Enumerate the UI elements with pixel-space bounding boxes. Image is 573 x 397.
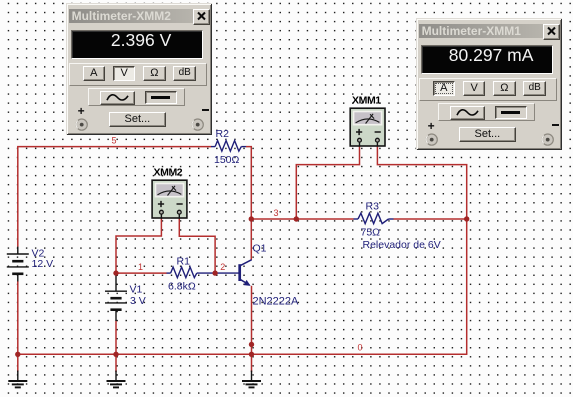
svg-text:2N2222A: 2N2222A (253, 295, 300, 307)
junction R3 right (464, 216, 469, 221)
wire V2 bottom (17, 281, 19, 354)
ground G3 (242, 371, 261, 388)
wire R2 to node3 (246, 147, 251, 219)
junction node3 at R2 (249, 216, 254, 221)
svg-text:R3: R3 (366, 201, 380, 213)
svg-text:1: 1 (138, 262, 143, 272)
resistor R3 (354, 213, 394, 223)
svg-text:5: 5 (112, 136, 117, 146)
wire net5 left vertical (17, 147, 19, 247)
wire node1 to R1 (116, 272, 167, 274)
multimeter icon XMM2 (152, 180, 187, 219)
svg-text:XMM2: XMM2 (154, 167, 183, 179)
svg-text:150Ω: 150Ω (214, 154, 240, 166)
wire ground stem V1 (115, 354, 117, 372)
svg-text:12 V: 12 V (32, 258, 54, 270)
ground G1 (8, 371, 27, 388)
resistor R2 (211, 141, 246, 152)
wire ground bus bottom (18, 353, 468, 355)
wire V1 bottom (115, 321, 117, 355)
wire XMM2 plus lead (116, 218, 161, 273)
wire XMM1 minus lead right rail (377, 146, 466, 355)
junction bottom left (15, 352, 20, 357)
svg-text:Relevador de 6V: Relevador de 6V (363, 239, 441, 251)
svg-text:6.8kΩ: 6.8kΩ (168, 281, 196, 293)
wire emitter down (251, 286, 253, 355)
svg-text:R2: R2 (216, 128, 230, 140)
wire R1 to base (197, 272, 239, 274)
battery V2 (7, 247, 29, 282)
junction node1 (113, 270, 118, 275)
multimeter window XMM2 (66, 3, 213, 135)
junction node2 (212, 270, 217, 275)
junction bottom V1 (113, 352, 118, 357)
multimeter icon XMM1 (350, 108, 385, 146)
svg-text:75Ω: 75Ω (361, 227, 381, 239)
wire node3 horizontal (251, 218, 353, 220)
wire R3 to right rail (394, 218, 467, 220)
svg-text:XMM1: XMM1 (352, 95, 381, 107)
junction node3 at XMM1 (294, 216, 299, 221)
svg-text:3: 3 (274, 208, 279, 218)
resistor R1 (167, 267, 197, 278)
wire ground stem emitter (251, 354, 253, 372)
svg-text:R1: R1 (177, 256, 191, 268)
wire net5 top horizontal (17, 146, 211, 148)
wire collector (250, 219, 252, 260)
junction emitter segment (249, 342, 254, 347)
svg-text:3 V: 3 V (130, 295, 146, 307)
svg-text:V1: V1 (130, 284, 143, 296)
svg-text:0: 0 (358, 343, 363, 353)
battery V1 (105, 273, 127, 321)
svg-text:Q1: Q1 (253, 243, 267, 255)
transistor Q1 (240, 260, 252, 286)
multimeter window XMM1 (416, 18, 563, 150)
wire ground stem left (17, 354, 19, 372)
junction bottom emitter (249, 352, 254, 357)
svg-text:2: 2 (220, 262, 225, 272)
wire XMM1 plus lead (296, 146, 359, 219)
wire XMM2 minus lead (179, 218, 215, 273)
ground G2 (107, 371, 126, 388)
